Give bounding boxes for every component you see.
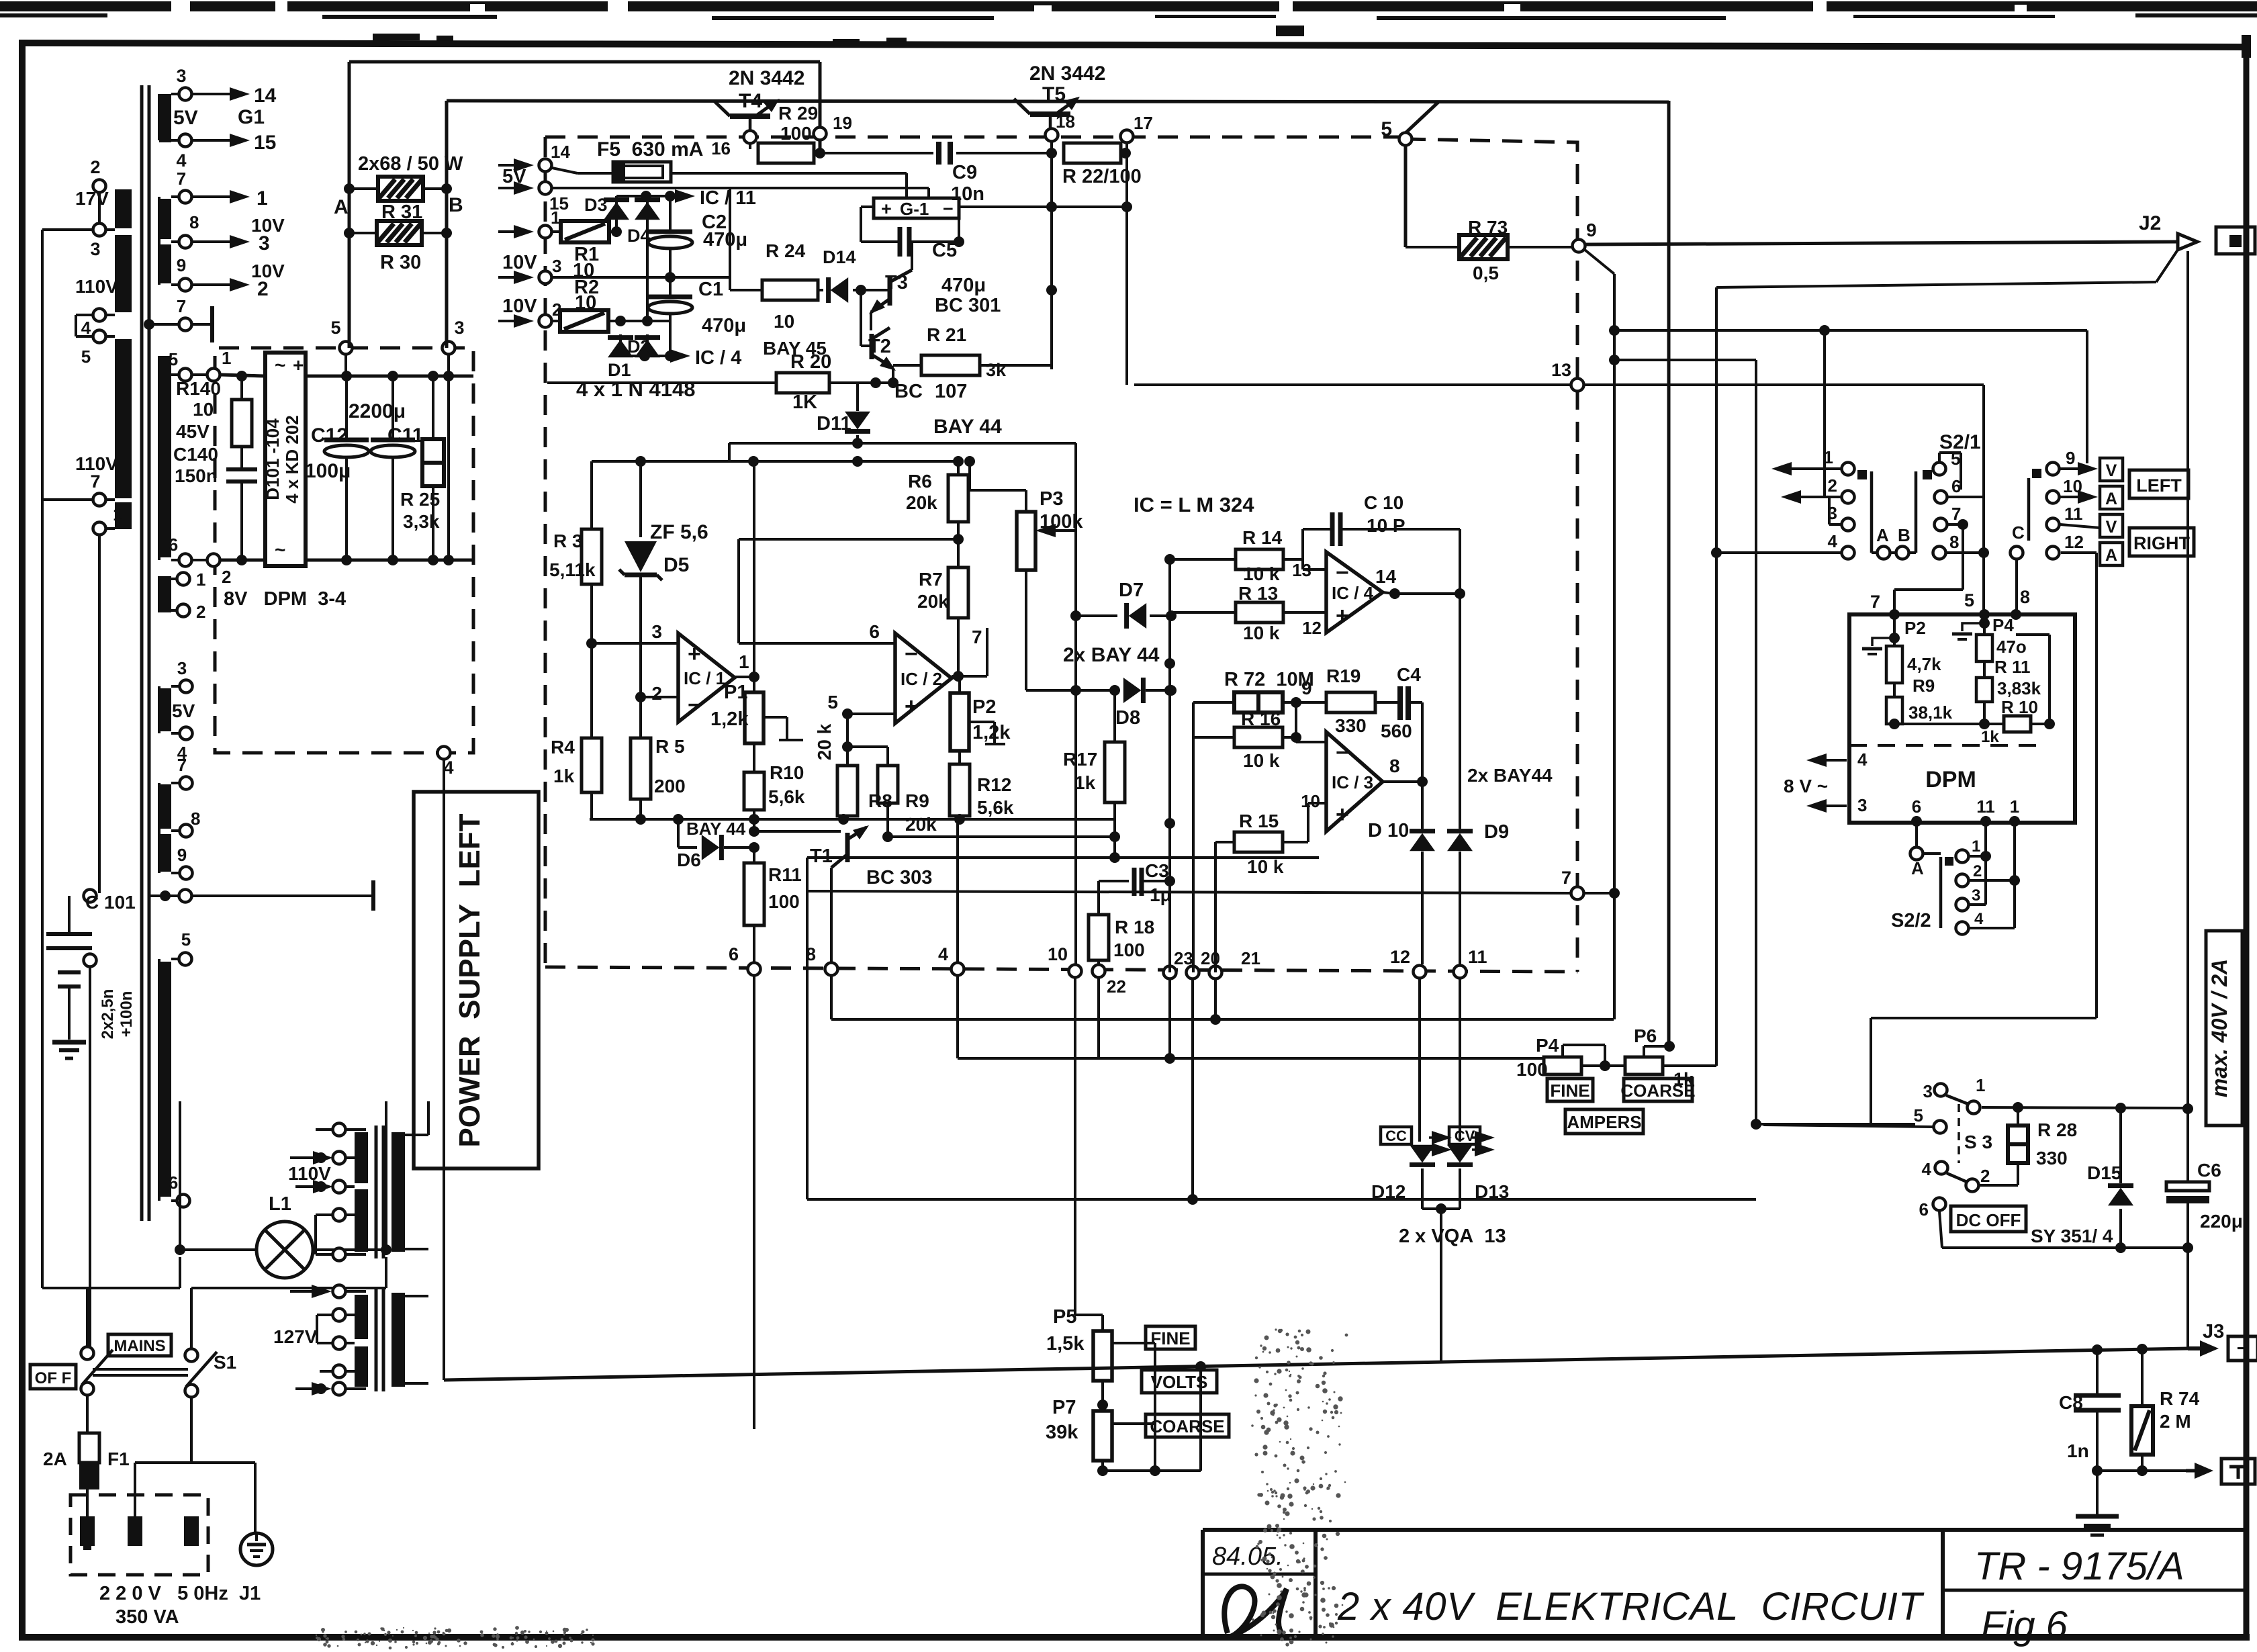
LEFT box [2129, 470, 2189, 498]
svg-text:3,83k: 3,83k [1997, 678, 2041, 698]
node 4 on dashed edge bottom [438, 747, 454, 778]
svg-text:ZF 5,6: ZF 5,6 [650, 521, 708, 543]
node 12 [1390, 947, 1426, 978]
node 9 branch diagonal [1585, 250, 1620, 1019]
wire secondary pin8 to arrow 3 [193, 232, 270, 255]
capacitor C9 10n [939, 142, 984, 205]
resistor R7 20k [917, 567, 968, 682]
svg-text:AMPERS: AMPERS [1567, 1112, 1641, 1132]
svg-text:6: 6 [1919, 1199, 1929, 1220]
net 7 long horizontal [807, 852, 1614, 900]
IC/2 output node 7 [952, 627, 987, 676]
node 17 on dashed line [1121, 113, 1153, 143]
feedback wire R6/R7 junction to IC/2 input 6 [739, 539, 958, 643]
node 23 [1164, 948, 1193, 979]
svg-text:MAINS: MAINS [113, 1337, 165, 1355]
resistor R29 100 [750, 103, 825, 163]
primary pins 4 and 5 jumper [76, 309, 115, 367]
wire pin15 to G-1 minus side [553, 188, 929, 198]
resistor R9 38,1k DPM [1886, 676, 1953, 724]
svg-text:TR - 9175/A: TR - 9175/A [1974, 1545, 2184, 1588]
svg-text:D14: D14 [823, 247, 856, 267]
wire R29 to C9 to R22 [820, 148, 1057, 158]
node 20 vertical [1187, 737, 1198, 1205]
svg-text:IC / 1: IC / 1 [684, 668, 725, 688]
resistor R6 20k [906, 461, 968, 567]
bus y536 branch [1614, 360, 1761, 1130]
wire secondary pin3 to arrow 14 [193, 85, 277, 107]
transistor T4 2N3442 [714, 67, 804, 134]
svg-text:B: B [1898, 525, 1910, 545]
node 8 [806, 944, 1614, 1019]
svg-text:R19: R19 [1326, 666, 1361, 686]
aux 127V jumper wires [317, 1315, 332, 1389]
resistor R1 10 [553, 221, 622, 281]
svg-text:5V: 5V [173, 107, 198, 129]
svg-text:6: 6 [169, 1173, 178, 1193]
svg-text:S2/2: S2/2 [1891, 910, 1931, 931]
svg-text:330: 330 [2036, 1148, 2068, 1168]
svg-text:FINE: FINE [1550, 1081, 1590, 1101]
svg-text:+: + [293, 355, 304, 375]
svg-text:8 V ~: 8 V ~ [1784, 776, 1828, 796]
svg-text:2: 2 [222, 567, 231, 587]
svg-text:R 21: R 21 [927, 324, 966, 345]
S2/1 bracket A B [1872, 471, 1916, 559]
aux transformer 110V windings [288, 1123, 368, 1261]
ground tie line [2092, 1465, 2195, 1476]
svg-text:7: 7 [90, 471, 100, 492]
node 11 vertical to D13 [1459, 979, 1461, 1142]
svg-text:5: 5 [81, 347, 91, 367]
svg-text:12: 12 [2064, 532, 2084, 552]
svg-text:D12: D12 [1371, 1181, 1406, 1202]
wire secondary pin4 to arrow 15 [193, 132, 276, 154]
transformer TR1 primary winding bars [115, 189, 142, 529]
svg-text:7: 7 [177, 296, 186, 316]
svg-text:1: 1 [1976, 1075, 1985, 1095]
svg-text:7: 7 [1561, 868, 1571, 888]
svg-text:47o: 47o [1996, 637, 2027, 657]
svg-text:R 11: R 11 [1994, 657, 2031, 677]
transformer TR1 5V winding power supply left [159, 658, 195, 763]
switch S2/2 [1891, 821, 1953, 931]
capacitor C4 560 [1381, 664, 1422, 782]
net 13 node and wire [1134, 360, 1989, 614]
svg-text:5: 5 [330, 318, 340, 338]
OFF box [30, 1365, 76, 1389]
dashed box pin 1 [498, 208, 560, 238]
ground symbol bottom right [2076, 1471, 2119, 1535]
connector ground terminal [2186, 1459, 2255, 1484]
svg-text:C12: C12 [311, 424, 348, 447]
svg-text:5: 5 [1964, 590, 1974, 610]
svg-text:BAY 44: BAY 44 [686, 819, 746, 839]
svg-text:G-1: G-1 [900, 199, 929, 219]
potentiometer P4 100 [1516, 1035, 1625, 1080]
transformer TR1 8V DPM winding [159, 569, 205, 622]
wire DPM pin 8 from C contact [2015, 559, 2018, 614]
node 18 on dashed line [1046, 111, 1075, 142]
svg-text:9: 9 [1301, 678, 1312, 698]
resistor R3 5,11k [549, 461, 602, 649]
svg-text:4 x KD 202: 4 x KD 202 [282, 415, 302, 504]
svg-text:R 13: R 13 [1238, 583, 1278, 604]
resistor R5 200 [631, 697, 686, 825]
svg-text:2: 2 [1828, 475, 1837, 496]
transformer TR1 secondary pin7 grounded tap [144, 296, 212, 342]
wire to IC/11 arrow [616, 187, 756, 209]
svg-text:+: + [905, 694, 918, 719]
svg-text:R4: R4 [551, 737, 575, 758]
svg-text:19: 19 [833, 113, 852, 133]
vertical from J2 to C6 and J3 [2186, 251, 2189, 1348]
DPM divider dashed [1849, 744, 2045, 747]
node 20 [1187, 948, 1220, 979]
transformer TR1 secondary 10V windings [159, 169, 285, 291]
svg-text:22: 22 [1107, 976, 1126, 997]
potentiometer P2 1,2k [950, 676, 1011, 751]
wire node17 down to net 13 [1121, 144, 1132, 385]
diode D6 BAY44 [677, 819, 759, 870]
resistor R31 [349, 177, 447, 223]
svg-text:470μ: 470μ [703, 229, 747, 250]
plug pin 2 [128, 1516, 142, 1546]
DPM pin 5 top [1964, 590, 1990, 620]
svg-text:2x2,5n: 2x2,5n [99, 989, 117, 1040]
svg-text:0,5: 0,5 [1473, 263, 1499, 283]
signature [1224, 1586, 1287, 1637]
potentiometer P7 39k [1046, 1397, 1155, 1471]
svg-text:P2: P2 [972, 696, 996, 718]
transformer TR1 secondary 5V G1 winding [159, 66, 265, 171]
transistor T5 2N3442 [1014, 62, 1105, 132]
svg-text:150n: 150n [175, 465, 218, 486]
diode D10 [1368, 782, 1435, 964]
svg-text:C 10: C 10 [1364, 492, 1403, 513]
svg-text:5,11k: 5,11k [549, 559, 596, 580]
svg-text:9: 9 [2066, 448, 2075, 468]
svg-text:R 72 10M: R 72 10M [1224, 669, 1314, 690]
svg-text:COARSE: COARSE [1150, 1416, 1224, 1436]
trimmer P4 47o [1952, 614, 2027, 678]
FINE box lower [1547, 1079, 1593, 1101]
svg-text:350 VA: 350 VA [116, 1606, 179, 1628]
COARSE box lower [1620, 1079, 1695, 1101]
svg-text:G1: G1 [238, 106, 265, 128]
svg-text:1: 1 [1972, 837, 1980, 856]
svg-text:A: A [1876, 525, 1889, 545]
earth symbol [240, 1533, 273, 1565]
svg-text:P5: P5 [1053, 1306, 1076, 1328]
svg-text:20 k: 20 k [814, 723, 835, 760]
bus y492 to meter select [1614, 325, 2087, 469]
net y1277 horizontal [807, 858, 1319, 1199]
svg-text:1: 1 [739, 651, 749, 672]
resistor R16 10k [1193, 702, 1301, 771]
svg-text:3: 3 [90, 239, 100, 259]
LED D12 CC [1371, 1127, 1452, 1209]
dashed box pin 2 [498, 300, 561, 328]
dashed box pin 15 [498, 181, 569, 214]
FINE box volts [1146, 1326, 1195, 1349]
resistor R18 100 [1089, 915, 1154, 964]
svg-text:+100n: +100n [118, 991, 136, 1038]
svg-text:14: 14 [254, 85, 277, 107]
label 220V 50Hz J1 [99, 1583, 261, 1628]
svg-text:+: + [881, 199, 892, 219]
op-amp IC/1 [592, 621, 735, 722]
svg-text:R 28: R 28 [2037, 1119, 2077, 1140]
svg-text:V: V [2106, 518, 2117, 537]
diode D3 [584, 195, 629, 232]
resistor R2 10 [553, 277, 670, 332]
svg-text:39k: 39k [1046, 1422, 1078, 1443]
svg-text:11: 11 [2064, 504, 2083, 524]
svg-text:21: 21 [1241, 948, 1260, 968]
svg-text:45V: 45V [176, 421, 210, 442]
resistor R140 and capacitor C140 branch [226, 376, 257, 560]
trimmer P2 4,7k [1862, 614, 1941, 697]
wire S1 right to plug [135, 1398, 255, 1534]
wire node18 down [1046, 142, 1057, 369]
diode D2 [627, 334, 660, 357]
resistor R9 20k [842, 741, 937, 835]
svg-text:10: 10 [1048, 944, 1068, 964]
aux 110V jumper wires [309, 1130, 332, 1254]
svg-text:11: 11 [1976, 796, 1995, 817]
scan artifact band top edge [0, 1, 2257, 58]
diode D11 BAY44 [817, 368, 1002, 443]
S3 pin 6 DC OFF [1919, 1198, 2193, 1254]
svg-text:5,6k: 5,6k [768, 786, 805, 807]
svg-text:10: 10 [193, 399, 214, 420]
svg-text:4: 4 [1974, 910, 1984, 928]
svg-text:2N 3442: 2N 3442 [1029, 62, 1105, 85]
DPM outer box [1849, 614, 2075, 823]
DPM bottom pins 6 11 1 [1911, 796, 2020, 827]
wire ampers net [807, 1124, 1915, 1199]
svg-text:4: 4 [176, 150, 186, 171]
DPM pin 3 8V supply [1784, 776, 1867, 815]
svg-text:+: + [1336, 603, 1349, 629]
primary pin 1 [93, 504, 123, 893]
svg-text:2: 2 [90, 157, 100, 177]
svg-text:20k: 20k [906, 492, 937, 513]
max 40V 2A box [2206, 931, 2242, 1126]
svg-text:1: 1 [113, 504, 122, 524]
svg-text:A: A [334, 196, 349, 218]
resistor R10 5,6k [744, 762, 805, 837]
connector J2 plus output [2139, 212, 2255, 254]
regulator box top wire [729, 438, 1076, 461]
resistor R22/100 [1062, 143, 1142, 187]
svg-text:R140: R140 [176, 378, 221, 399]
svg-text:10 k: 10 k [1247, 856, 1284, 877]
DPM pin 7 top [1870, 592, 1900, 620]
LED D13 CV [1447, 1127, 1509, 1209]
aux transformer 127V windings [273, 1285, 368, 1395]
transformer TR1 long lower winding [159, 929, 192, 1207]
wire B vertical [441, 101, 463, 348]
svg-text:S1: S1 [214, 1352, 236, 1373]
potentiometer P6 1k [1625, 1025, 1716, 1089]
S2/1 contact column 1 [1711, 447, 1867, 559]
svg-text:18: 18 [1056, 111, 1075, 132]
aux 127V arrows [290, 1285, 332, 1395]
svg-text:8: 8 [191, 809, 200, 829]
plus bus of rectifier [193, 371, 473, 381]
svg-text:20k: 20k [917, 591, 949, 612]
svg-text:2 2 0 V 5 0Hz J1: 2 2 0 V 5 0Hz J1 [99, 1583, 261, 1604]
svg-text:D9: D9 [1484, 821, 1509, 843]
COARSE box volts [1146, 1414, 1229, 1437]
svg-text:2 x 40V ELEKTRICAL CIRCUIT: 2 x 40V ELEKTRICAL CIRCUIT [1337, 1585, 1925, 1628]
left vertical mains wire A [41, 230, 44, 1288]
op-amp IC/3 [1301, 732, 1400, 831]
svg-text:100: 100 [768, 891, 800, 912]
IC/1 output node 1 [735, 461, 759, 692]
svg-text:P7: P7 [1052, 1397, 1076, 1418]
bottom rail of IC1 region [590, 814, 1115, 825]
wire pin12 long vertical [1871, 553, 2097, 1125]
dashed box pin 14 [498, 142, 570, 172]
svg-text:IC / 3: IC / 3 [1332, 772, 1373, 792]
svg-text:2x BAY 44: 2x BAY 44 [1063, 644, 1160, 666]
svg-text:3: 3 [1923, 1081, 1933, 1101]
wire node5 down to plus bus [344, 355, 347, 376]
svg-text:1,5k: 1,5k [1046, 1333, 1085, 1355]
DPM pin 8 top [2011, 587, 2030, 620]
resistor R20 1K [547, 351, 899, 413]
svg-text:R 25: R 25 [400, 489, 440, 510]
capacitor C11 2200u [349, 376, 423, 560]
resistor R12 5,6k [950, 751, 1014, 819]
svg-text:100μ: 100μ [305, 460, 351, 482]
node 23 vertical [1164, 616, 1175, 1064]
svg-text:~: ~ [275, 539, 285, 560]
svg-text:max. 40V / 2A: max. 40V / 2A [2207, 959, 2231, 1097]
label 2xVQA13 [1399, 1203, 1506, 1362]
primary pin 2 17V [75, 157, 109, 222]
svg-text:C5: C5 [932, 240, 957, 261]
volts chain bottom ties [754, 1343, 1206, 1476]
svg-text:C1: C1 [698, 279, 723, 300]
resistor R17 1k [1063, 685, 1125, 858]
svg-text:R 29: R 29 [778, 103, 818, 124]
svg-text:12: 12 [1302, 618, 1322, 638]
diode D15 [2087, 1108, 2133, 1248]
minus bus of rectifier [193, 555, 473, 565]
svg-text:POWER SUPPLY LEFT: POWER SUPPLY LEFT [453, 813, 486, 1147]
svg-text:16: 16 [711, 138, 731, 158]
svg-text:20k: 20k [905, 814, 937, 835]
svg-text:10n: 10n [951, 183, 984, 205]
svg-text:D5: D5 [663, 554, 689, 576]
svg-text:4: 4 [938, 944, 948, 964]
svg-text:CC: CC [1385, 1128, 1407, 1144]
svg-text:DPM: DPM [1925, 767, 1976, 792]
svg-text:10: 10 [1301, 791, 1320, 811]
svg-text:P2: P2 [1904, 618, 1926, 638]
svg-text:17: 17 [1134, 113, 1153, 133]
svg-text:6: 6 [729, 944, 739, 964]
aux 110V arrows [290, 1142, 333, 1193]
bus to J3 minus [444, 1344, 2188, 1380]
svg-text:200: 200 [654, 776, 686, 796]
resistor R8 [837, 714, 892, 819]
wire node3 down through box [447, 355, 450, 560]
transformer TR1 windings to power supply left [159, 755, 200, 880]
potentiometer P1 1,2k [710, 682, 803, 772]
V A V A boxes [2100, 458, 2123, 565]
svg-text:+: + [1336, 802, 1349, 827]
svg-text:2: 2 [651, 683, 662, 704]
primary pin 3 [42, 224, 115, 260]
svg-text:~: ~ [275, 355, 285, 375]
plug pin 1 [80, 1516, 95, 1550]
resistor R10 1k DPM [1889, 614, 2055, 746]
svg-text:R8: R8 [868, 790, 892, 811]
svg-text:3: 3 [1857, 795, 1867, 815]
aux transformer 110V core [376, 1126, 383, 1258]
svg-text:4: 4 [81, 318, 91, 338]
svg-text:COARSE: COARSE [1620, 1081, 1695, 1101]
svg-text:2 x VQA 13: 2 x VQA 13 [1399, 1226, 1506, 1247]
svg-text:R10: R10 [770, 762, 804, 783]
svg-text:2N 3442: 2N 3442 [729, 67, 804, 89]
svg-text:5: 5 [1381, 118, 1392, 140]
node 19 on dashed line [814, 113, 852, 140]
wire to IC/4 arrow [620, 347, 741, 369]
capacitor C10 10P [1303, 492, 1460, 569]
svg-text:4,7k: 4,7k [1907, 654, 1941, 674]
op-amp IC/2 [827, 621, 952, 723]
svg-text:−: − [1336, 560, 1349, 586]
svg-text:R9: R9 [905, 790, 929, 811]
svg-text:R12: R12 [977, 774, 1011, 795]
svg-text:6: 6 [169, 535, 178, 555]
svg-text:1K: 1K [792, 392, 817, 413]
svg-text:7: 7 [177, 755, 187, 775]
S2/2 contacts [1956, 821, 2021, 935]
node 10 vertical to P5 [1075, 978, 1103, 1331]
node 5 on dashed corner [1381, 118, 1412, 146]
svg-text:110V: 110V [288, 1163, 331, 1184]
svg-text:1μ: 1μ [1150, 884, 1172, 905]
resistor R30 [349, 221, 447, 273]
svg-text:17V: 17V [75, 188, 109, 209]
svg-text:D13: D13 [1475, 1181, 1509, 1202]
svg-text:2x BAY44: 2x BAY44 [1467, 765, 1553, 786]
svg-text:−: − [905, 641, 918, 667]
lamp L1 [175, 1193, 391, 1278]
svg-text:5,6k: 5,6k [977, 797, 1014, 818]
node 22 [1093, 965, 1126, 997]
svg-text:A: A [2105, 546, 2117, 565]
wire A vertical [334, 62, 355, 348]
capacitor C2 470u [648, 196, 747, 283]
svg-text:1k: 1k [1981, 728, 1999, 746]
svg-text:10: 10 [575, 292, 596, 314]
svg-text:−: − [688, 692, 701, 718]
svg-text:3k: 3k [986, 360, 1007, 380]
svg-text:8: 8 [189, 212, 199, 232]
svg-text:1n: 1n [2067, 1440, 2089, 1461]
diode D1 [608, 316, 633, 380]
VOLTS box [1142, 1370, 1217, 1393]
svg-text:6: 6 [869, 621, 880, 642]
